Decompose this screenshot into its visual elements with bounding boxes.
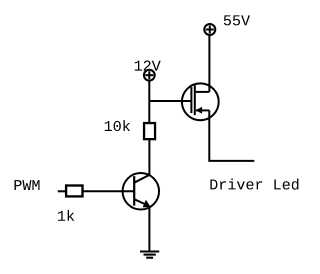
wire 12V to node A <box>148 80 150 123</box>
wire PWM stub to resistor 1k <box>58 190 66 192</box>
resistor 1k <box>66 186 82 197</box>
net label 12V <box>135 61 161 71</box>
value label 1k <box>58 210 74 221</box>
wire Q2 source to Driver Led <box>209 110 254 160</box>
wire Q1 emitter to ground <box>148 206 150 252</box>
transistor Q1 NPN <box>123 173 160 210</box>
wire Q1 collector to resistor 10k <box>148 140 150 175</box>
resistor 10k <box>144 123 155 139</box>
wire node A to Q2 gate <box>149 100 190 102</box>
net label 55V <box>224 15 250 25</box>
value label 10k <box>105 120 130 131</box>
wire Q2 drain to 55V <box>208 35 210 92</box>
MOSFET Q2 <box>182 83 219 120</box>
wire resistor 1k to Q1 base <box>84 190 135 192</box>
ground <box>140 252 159 258</box>
net label PWM <box>15 180 40 190</box>
power +12V <box>144 70 155 81</box>
power +55V <box>204 24 215 35</box>
net label Driver Led <box>210 179 298 190</box>
